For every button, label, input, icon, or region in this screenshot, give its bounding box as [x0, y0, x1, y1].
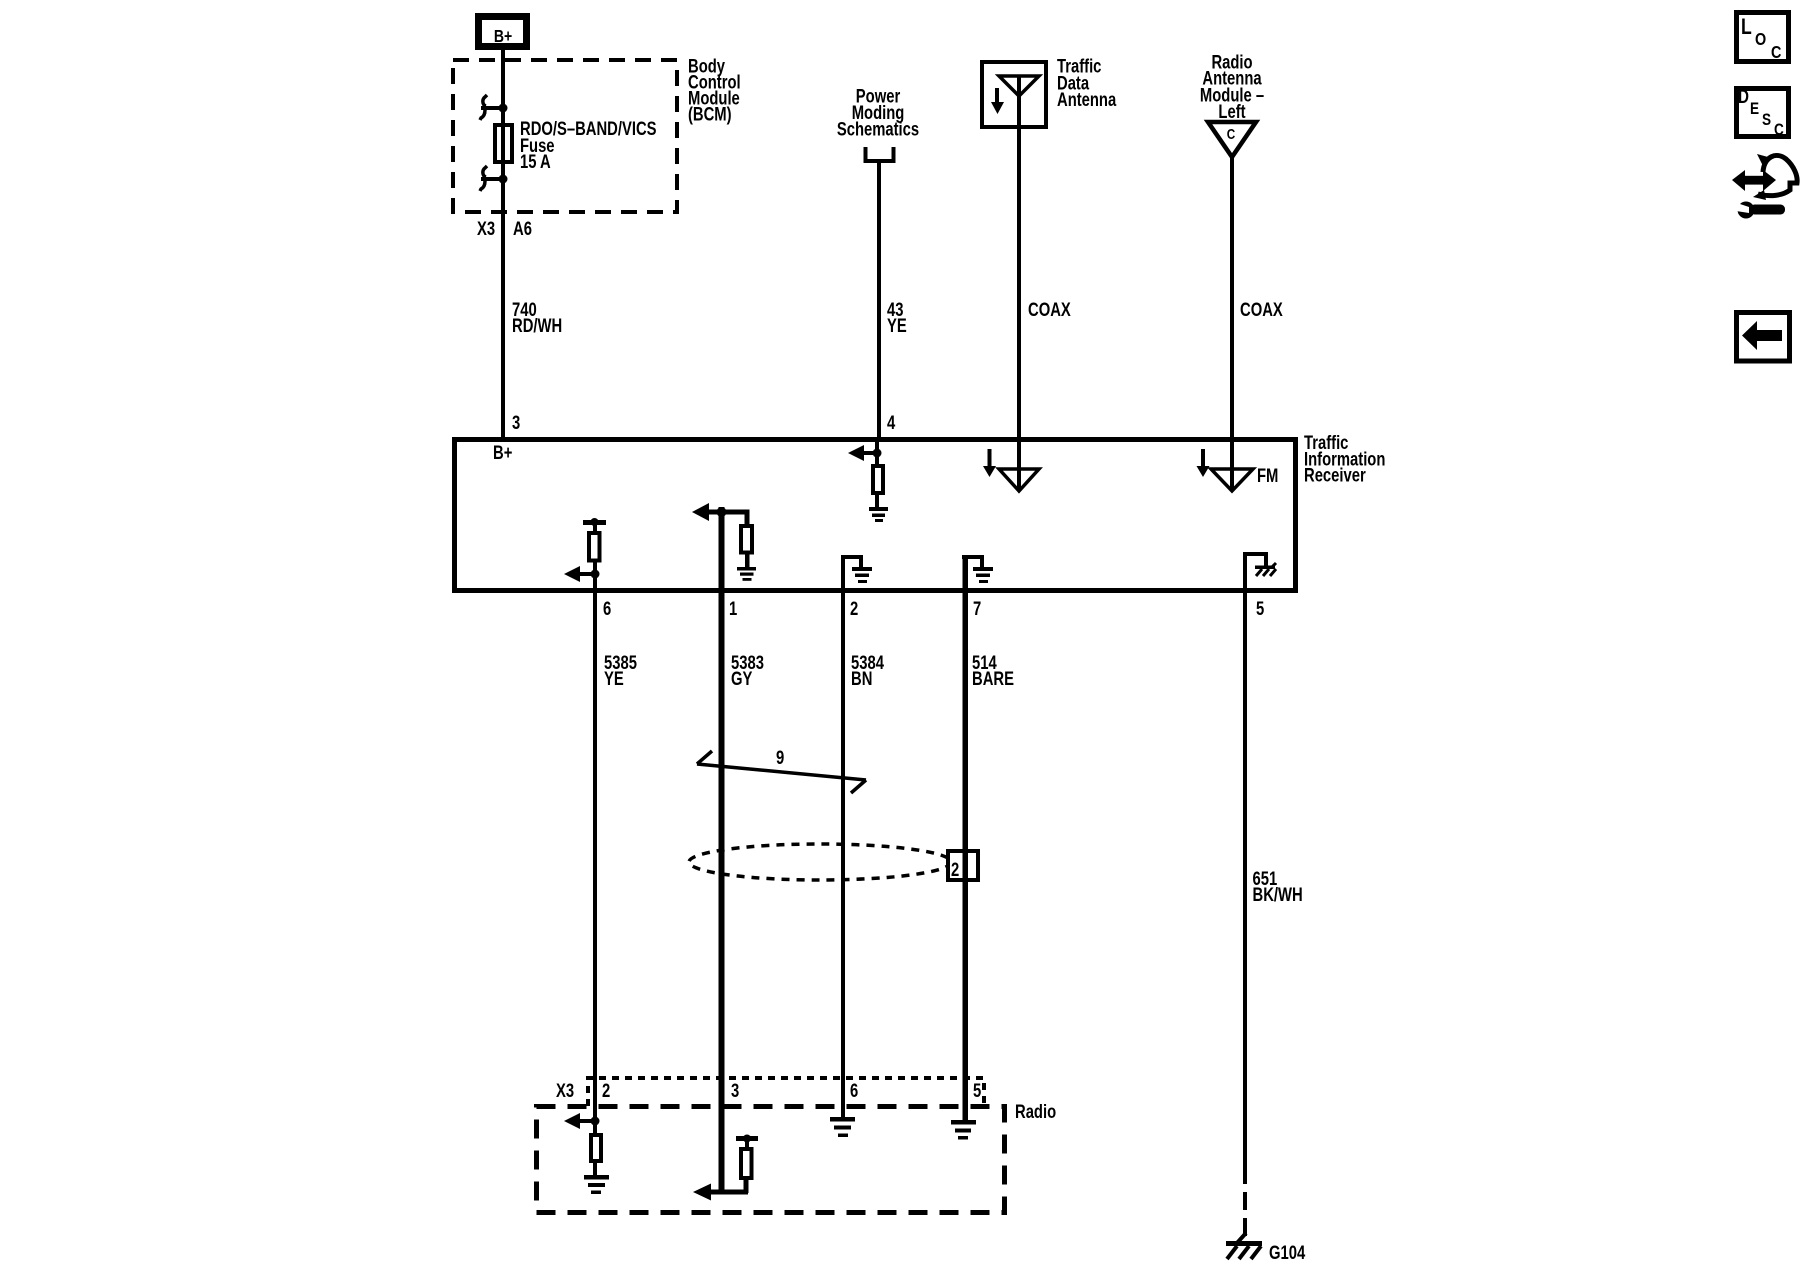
shield connection box 2 on 514 BARE [948, 850, 978, 881]
wire label 5383 GY [731, 652, 764, 689]
fuse RDO/S-BAND/VICS 15 A [495, 125, 512, 162]
svg-text:3: 3 [512, 412, 520, 433]
pin 5 label below receiver [1256, 598, 1264, 619]
svg-text:Radio: Radio [1015, 1101, 1056, 1122]
svg-text:COAX: COAX [1240, 299, 1283, 320]
svg-text:2: 2 [951, 859, 959, 880]
traffic data antenna label [1057, 56, 1117, 110]
pin 2 label below receiver [850, 598, 858, 619]
twisted pair symbol 9 crossing GY and BN [697, 751, 866, 793]
down arrow inside traffic data antenna box [991, 88, 1004, 114]
svg-text:C: C [1771, 43, 1782, 63]
svg-text:C: C [1227, 126, 1236, 143]
radio pin 2 internal resistor [591, 1123, 601, 1175]
DESC navigation icon box [1737, 85, 1789, 139]
svg-text:(BCM): (BCM) [688, 104, 732, 125]
fuse holder clip bottom [480, 166, 508, 191]
svg-text:X3: X3 [556, 1080, 574, 1101]
pin 1 internal arrow left bold [692, 503, 749, 521]
svg-text:15 A: 15 A [520, 151, 551, 172]
svg-text:D: D [1738, 85, 1749, 107]
svg-text:2: 2 [602, 1080, 610, 1101]
pin 5 internal chassis ground symbol [1255, 563, 1276, 576]
radio antenna module triangle symbol with C [1208, 122, 1256, 157]
svg-text:5: 5 [973, 1080, 981, 1101]
svg-text:Antenna: Antenna [1057, 89, 1117, 110]
off-page bracket symbol power moding [864, 147, 896, 163]
svg-text:B+: B+ [494, 26, 512, 46]
receiver name label Traffic Information Receiver [1304, 432, 1385, 486]
pin 5 internal hook corner [1243, 552, 1268, 566]
svg-text:YE: YE [887, 315, 907, 336]
BCM module name label [688, 56, 741, 125]
svg-text:Receiver: Receiver [1304, 465, 1366, 486]
LOC navigation icon box [1737, 13, 1789, 63]
pin 7 internal ground symbol [973, 567, 993, 583]
svg-text:Left: Left [1218, 101, 1245, 122]
wire 651 dashed section to G104 [1243, 1192, 1247, 1236]
ground name label G104 [1269, 1242, 1306, 1263]
pin 4 internal ground symbol [869, 507, 888, 522]
pin 7 internal hook corner [962, 555, 984, 567]
shield dashed ellipse around wires [689, 844, 951, 880]
radio pin 6 internal ground symbol [830, 1117, 855, 1137]
pin 1 internal corner down to resistor [745, 510, 750, 526]
svg-text:A6: A6 [513, 218, 532, 239]
svg-text:6: 6 [850, 1080, 858, 1101]
coax wire from radio antenna module to receiver FM [1230, 157, 1234, 437]
wire 514 BARE bold from receiver pin 7 to radio pin 5 [963, 555, 969, 1120]
service tools icon double arrow [1732, 170, 1776, 191]
fuse value label RDO/S-BAND/VICS Fuse 15 A [520, 118, 657, 172]
radio pin 3 internal resistor [741, 1149, 752, 1178]
pin 4 internal resistor lower stub [875, 493, 879, 507]
pin 1 internal ground symbol [737, 567, 756, 581]
radio dashed box [537, 1107, 1005, 1213]
receiver internal net label B+ [493, 442, 512, 463]
svg-text:L: L [1741, 15, 1752, 39]
pin 4 internal wire stub [875, 437, 879, 466]
svg-text:6: 6 [603, 598, 611, 619]
svg-text:FM: FM [1257, 465, 1278, 486]
power moding schematics label [837, 86, 919, 140]
radio pin 6 label [850, 1080, 858, 1101]
radio pin 2 internal junction and arrow left [564, 1113, 600, 1129]
pin 6 label below receiver [603, 598, 611, 619]
receiver FM antenna input mast [1230, 439, 1234, 491]
svg-text:Schematics: Schematics [837, 119, 919, 140]
wire 5384 BN from receiver pin 2 to radio pin 6 [841, 555, 845, 1117]
fuse holder clip top [480, 95, 508, 120]
wire 740 RD/WH from B+ to receiver pin 3 [501, 50, 505, 437]
svg-text:B+: B+ [493, 442, 512, 463]
wire 5385 YE from receiver pin 6 to radio pin 2 [593, 574, 597, 1121]
pin 4 label at receiver [887, 412, 896, 433]
wire label 514 BARE [972, 652, 1014, 689]
traffic data antenna mast and coax wire down [1017, 76, 1021, 437]
radio pin 2 internal ground symbol [584, 1175, 609, 1194]
pin 2 internal hook corner [841, 555, 863, 567]
pin 6 internal resistor [589, 533, 600, 561]
receiver FM pin label [1257, 465, 1278, 486]
radio pin 2 label [602, 1080, 610, 1101]
svg-text:X3: X3 [477, 218, 495, 239]
svg-text:9: 9 [776, 747, 784, 768]
svg-text:S: S [1762, 111, 1771, 130]
pin 7 label below receiver [973, 598, 981, 619]
receiver traffic antenna input mast [1017, 439, 1021, 491]
pin 6 internal arrow left [564, 566, 595, 582]
radio pin 5 internal ground symbol [951, 1120, 976, 1140]
radio pin 3 label [731, 1080, 739, 1101]
service tools icon wrench [1734, 202, 1785, 219]
svg-text:GY: GY [731, 668, 753, 689]
svg-text:YE: YE [604, 668, 624, 689]
pin 4 internal resistor [873, 466, 883, 493]
radio connector X3 dotted box [588, 1078, 984, 1106]
wire 43 YE from bracket to receiver pin 4 [877, 163, 881, 437]
back arrow icon box [1737, 313, 1790, 362]
svg-text:2: 2 [850, 598, 858, 619]
pin 1 internal resistor [741, 526, 752, 553]
receiver traffic antenna input triangle [999, 469, 1039, 491]
wire label 43 YE [887, 299, 907, 336]
wire label 5385 YE [604, 652, 637, 689]
pin 2 internal ground symbol [852, 567, 872, 583]
traffic data antenna triangle [999, 76, 1039, 96]
wire label 651 BK/WH [1253, 868, 1303, 905]
svg-text:4: 4 [887, 412, 896, 433]
svg-text:BK/WH: BK/WH [1253, 884, 1303, 905]
radio antenna module left label [1200, 52, 1264, 123]
svg-text:C: C [1774, 121, 1784, 140]
receiver traffic input down arrow [983, 449, 996, 477]
connector label X3 [477, 218, 495, 239]
chassis ground G104 symbol [1226, 1233, 1262, 1259]
radio pin 5 label [973, 1080, 981, 1101]
traffic data antenna box [982, 62, 1046, 127]
receiver FM antenna input triangle [1211, 469, 1253, 491]
receiver FM input down arrow [1197, 449, 1210, 477]
wire label 5384 BN [851, 652, 884, 689]
pin 1 internal resistor lower stub [745, 553, 750, 568]
pin 3 label at receiver [512, 412, 520, 433]
svg-text:RD/WH: RD/WH [512, 315, 562, 336]
svg-text:3: 3 [731, 1080, 739, 1101]
svg-text:1: 1 [729, 598, 737, 619]
radio pin 3 internal arrow left bold [693, 1184, 748, 1201]
pin label A6 [513, 218, 532, 239]
svg-text:BN: BN [851, 668, 872, 689]
svg-text:G104: G104 [1269, 1242, 1306, 1263]
wire label COAX traffic [1028, 299, 1071, 320]
svg-text:O: O [1755, 30, 1766, 50]
radio pin 3 internal corner up to resistor [744, 1180, 749, 1193]
radio connector label X3 [556, 1080, 574, 1101]
svg-text:E: E [1750, 100, 1759, 119]
svg-text:5: 5 [1256, 598, 1264, 619]
radio pin 3 internal termination bar [736, 1135, 758, 1150]
service tools icon outline arrow [1753, 154, 1797, 200]
svg-text:COAX: COAX [1028, 299, 1071, 320]
radio name label [1015, 1101, 1056, 1122]
svg-text:7: 7 [973, 598, 981, 619]
body control module BCM dashed box [453, 60, 677, 212]
pin 1 label below receiver [729, 598, 737, 619]
power symbol B+ battery feed box [479, 17, 527, 47]
wire 651 BK/WH from receiver pin 5 to G104 [1243, 552, 1247, 1184]
svg-text:BARE: BARE [972, 668, 1014, 689]
pin 4 internal arrow left [848, 445, 882, 461]
pin 6 internal termination bar [583, 518, 606, 533]
pin 6 internal lower stub with junction [591, 561, 600, 579]
wire label COAX radio antenna [1240, 299, 1283, 320]
traffic information receiver box [455, 440, 1296, 591]
wire label 740 RD/WH [512, 299, 562, 336]
twisted pair label 9 [776, 747, 784, 768]
wire 5383 GY bold from receiver pin 1 to radio pin 3 [719, 507, 725, 1194]
